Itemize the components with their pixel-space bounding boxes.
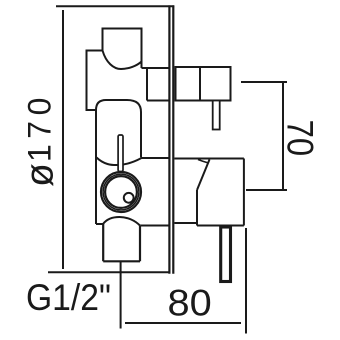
svg-text:ø: ø [19, 163, 62, 187]
svg-text:80: 80 [168, 283, 212, 325]
svg-text:170: 170 [22, 92, 58, 162]
svg-text:G1/2": G1/2" [26, 278, 111, 319]
svg-text:70: 70 [279, 120, 320, 157]
